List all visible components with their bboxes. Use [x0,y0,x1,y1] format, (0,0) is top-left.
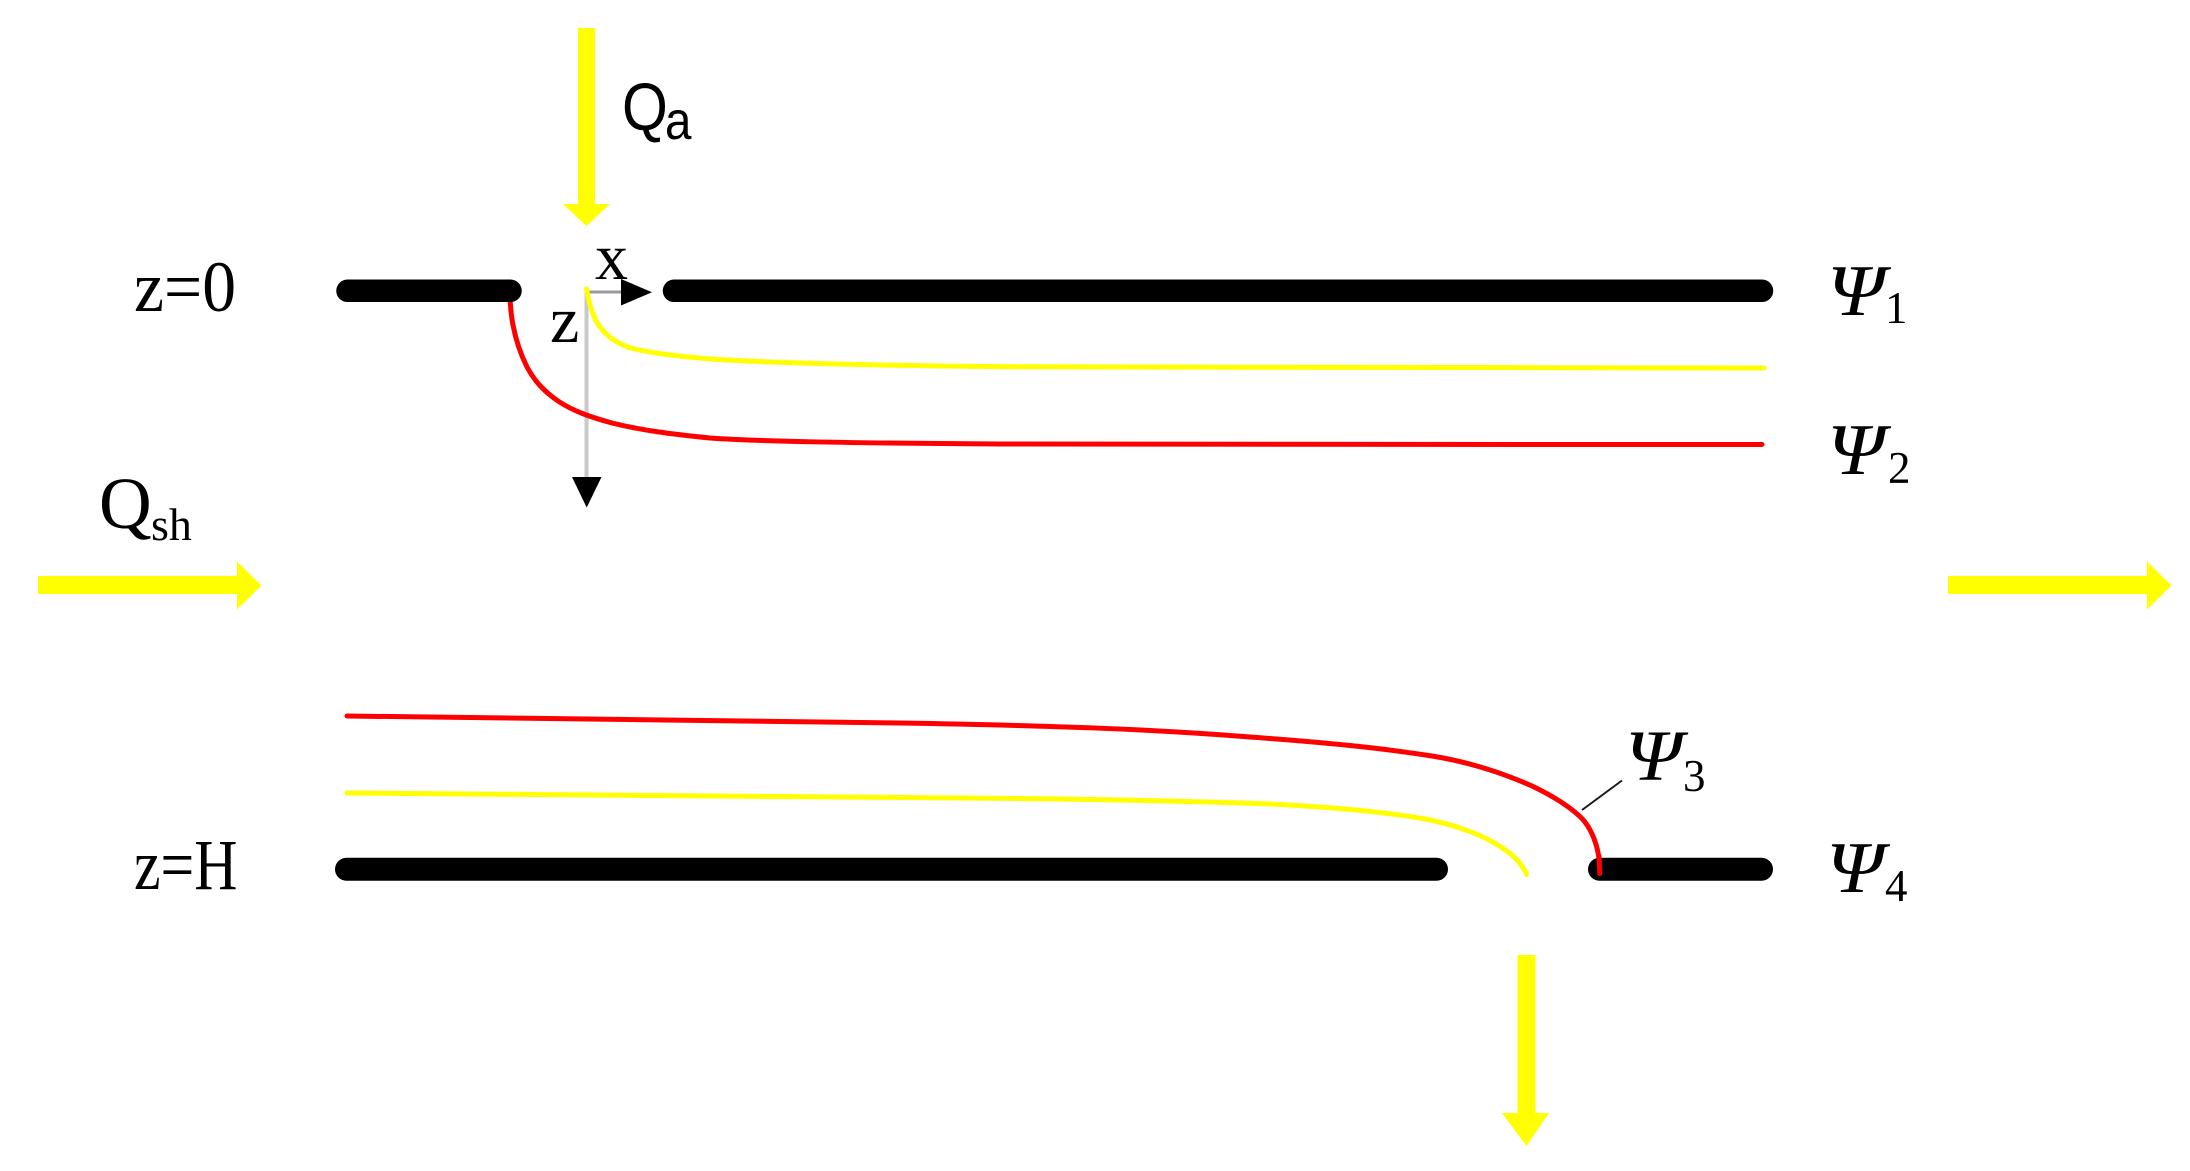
svg-text:Ψ: Ψ [1826,827,1891,908]
svg-text:3: 3 [1683,751,1706,801]
svg-text:Ψ: Ψ [1625,716,1689,796]
svg-text:Q: Q [622,71,668,145]
svg-text:z: z [550,284,579,357]
svg-text:z=0: z=0 [134,248,236,327]
svg-text:sh: sh [151,499,192,550]
svg-text:Q: Q [99,463,152,544]
svg-text:1: 1 [1885,283,1908,333]
svg-text:x: x [595,221,628,294]
svg-text:Ψ: Ψ [1827,409,1892,490]
svg-text:2: 2 [1888,443,1911,493]
svg-text:Ψ: Ψ [1827,250,1892,331]
svg-text:z=H: z=H [134,826,237,905]
svg-text:4: 4 [1885,861,1908,911]
svg-text:a: a [665,90,692,151]
